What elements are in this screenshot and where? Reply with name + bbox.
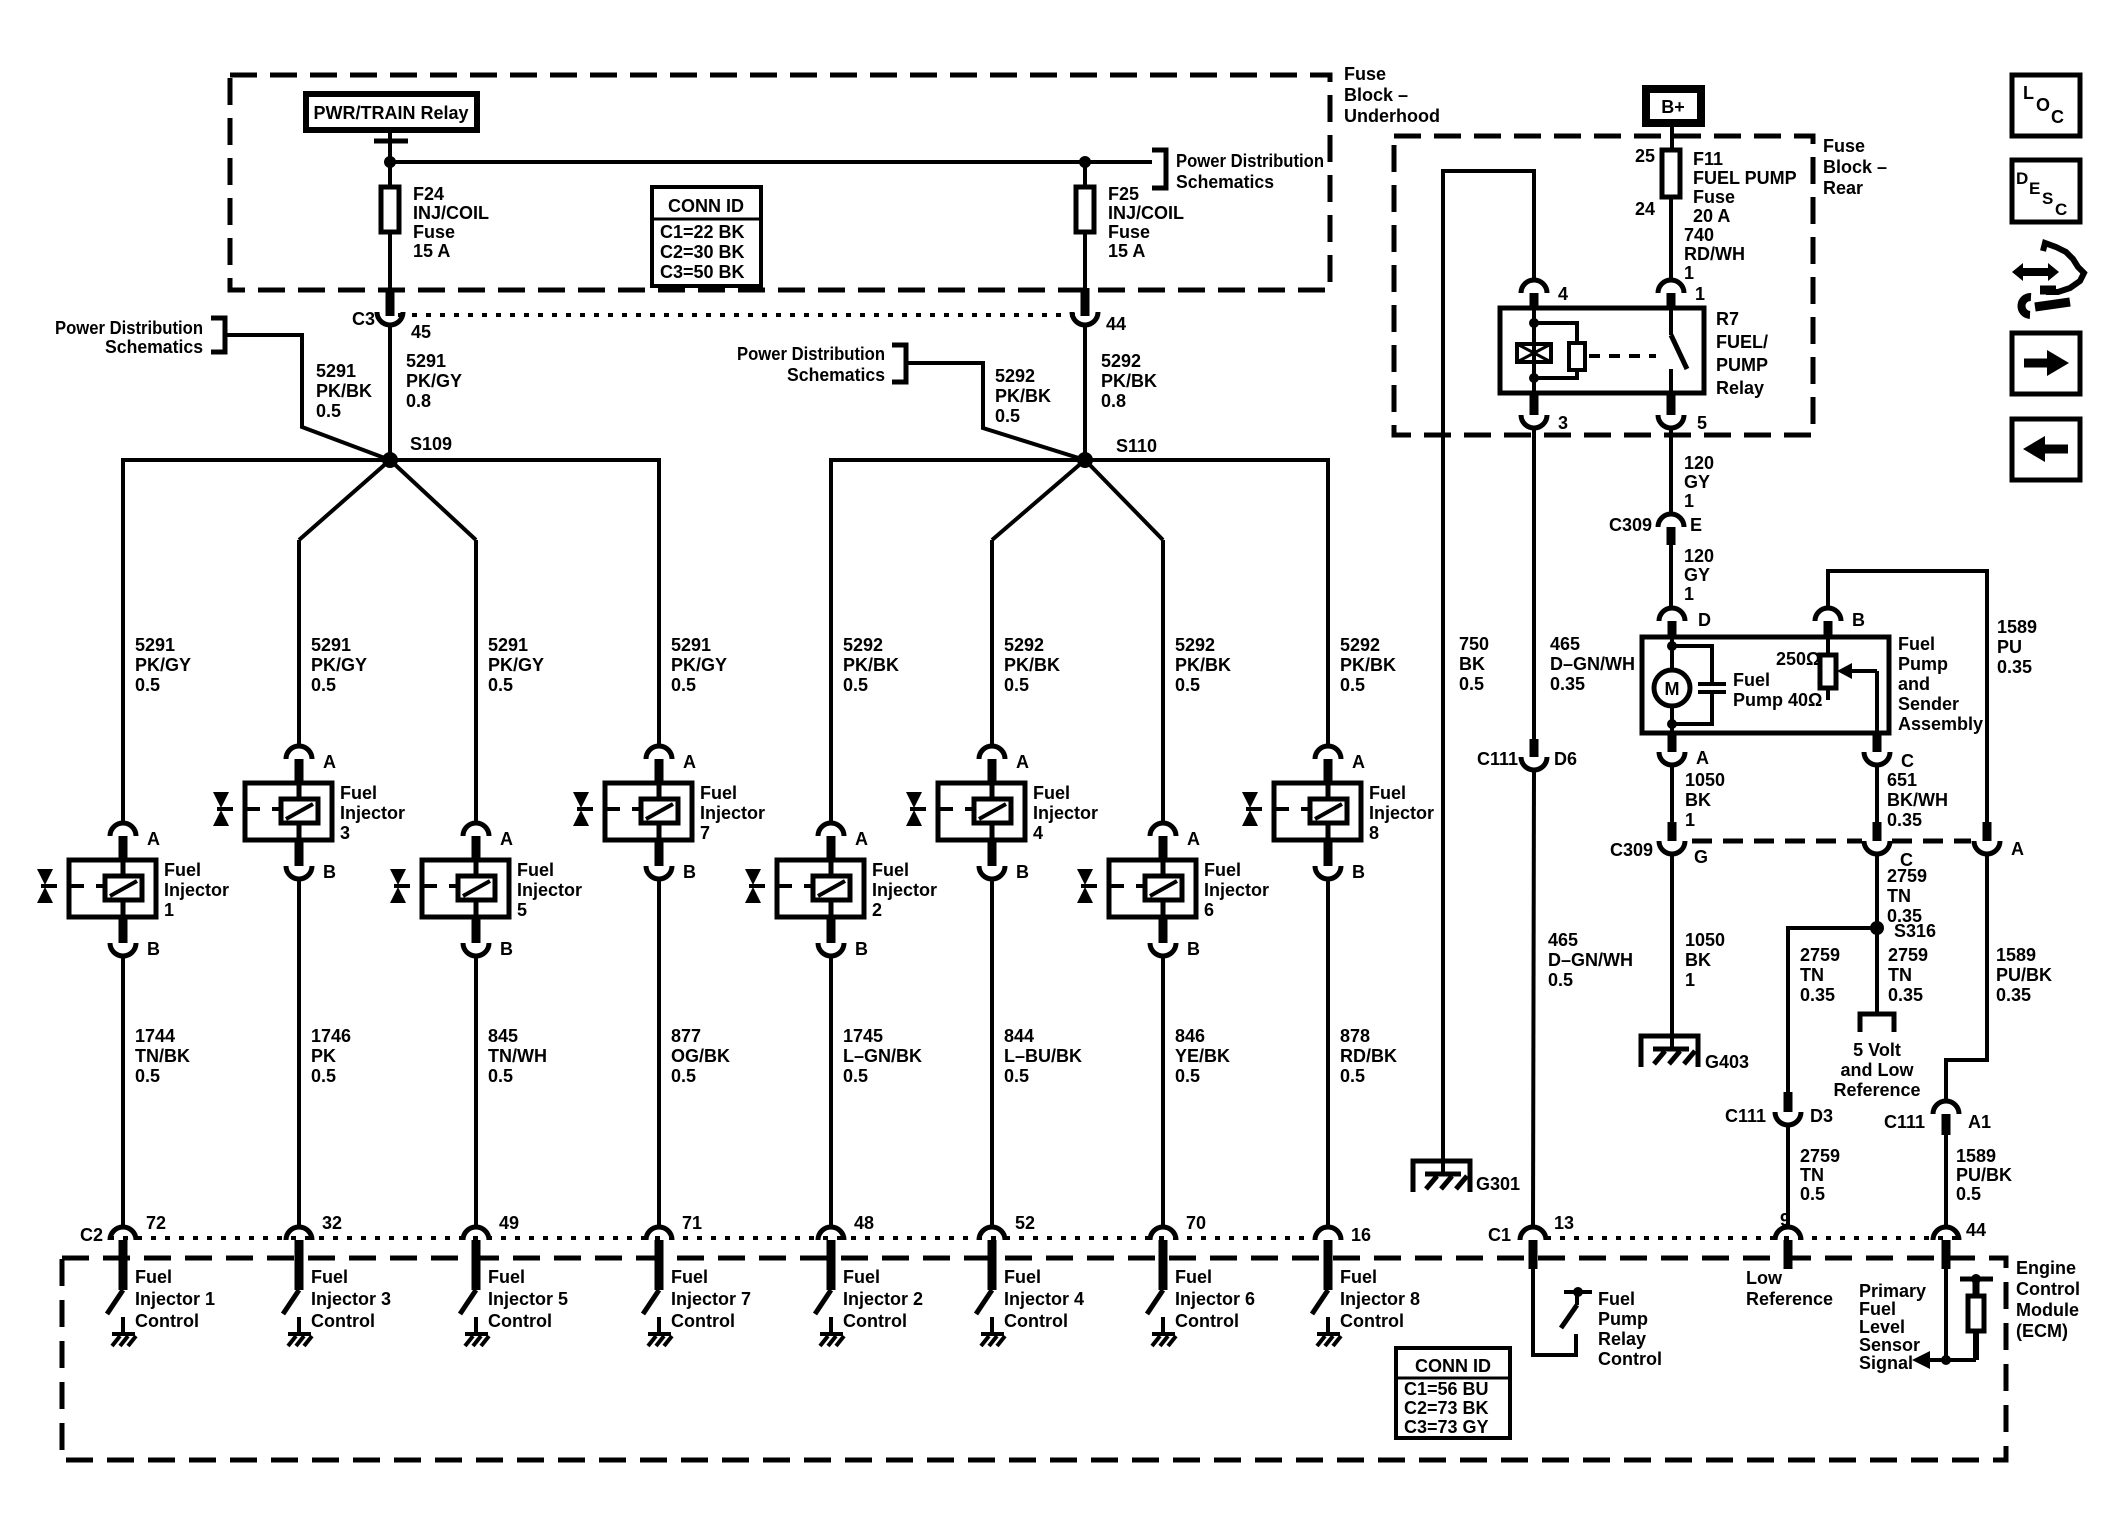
svg-text:Injector: Injector (1204, 880, 1269, 900)
svg-text:CONN ID: CONN ID (668, 196, 744, 216)
connector C111 pin A1 (1884, 1101, 1991, 1135)
label 250 ohm (1776, 649, 1820, 669)
svg-text:D: D (1698, 610, 1711, 630)
svg-text:Schematics: Schematics (1176, 172, 1274, 192)
svg-text:D–GN/WH: D–GN/WH (1550, 654, 1635, 674)
wire relay pin 4 to 750 BK (1443, 171, 1534, 1174)
svg-text:Fuel: Fuel (1004, 1267, 1041, 1287)
svg-text:PK/BK: PK/BK (316, 381, 372, 401)
svg-text:RD/WH: RD/WH (1684, 244, 1745, 264)
wire 1589 PU/BK 0.35 to C111 A1 (1946, 854, 2052, 1101)
node junction at F25 feed (1079, 156, 1091, 168)
svg-text:5: 5 (1697, 413, 1707, 433)
ECM fuel injector 7 control driver (643, 1267, 751, 1346)
svg-text:BK: BK (1685, 790, 1711, 810)
connector C2 dotted line (109, 1236, 1961, 1240)
connector C3 pin 44 (1072, 312, 1126, 334)
fuel injector 5 (390, 823, 582, 959)
svg-text:E: E (1690, 515, 1702, 535)
svg-text:465: 465 (1548, 930, 1578, 950)
ECM connector C2 pin 72 (110, 1213, 166, 1290)
svg-text:2759: 2759 (1800, 945, 1840, 965)
svg-text:Fuse: Fuse (413, 222, 455, 242)
svg-text:C3: C3 (352, 309, 375, 329)
svg-text:CONN ID: CONN ID (1415, 1356, 1491, 1376)
icon wiring repair wrench (2012, 243, 2084, 315)
svg-text:5292: 5292 (1340, 635, 1380, 655)
svg-text:5291: 5291 (671, 635, 711, 655)
svg-text:S: S (2042, 189, 2053, 208)
wire label 5291 PK/GY 0.5 at x=659 (671, 635, 727, 695)
svg-text:A: A (683, 752, 696, 772)
svg-text:Injector: Injector (1033, 803, 1098, 823)
ground G301 (1413, 1161, 1520, 1194)
svg-text:1: 1 (1684, 263, 1694, 283)
svg-text:0.5: 0.5 (1548, 970, 1573, 990)
svg-text:465: 465 (1550, 634, 1580, 654)
wire 651 BK/WH 0.35 to C309 C (1877, 765, 1948, 830)
wire label 750 BK 0.5 (1459, 634, 1489, 694)
svg-text:5292: 5292 (843, 635, 883, 655)
svg-text:A: A (1187, 829, 1200, 849)
svg-text:PK/GY: PK/GY (311, 655, 367, 675)
svg-text:PK/BK: PK/BK (1175, 655, 1231, 675)
svg-text:B: B (683, 862, 696, 882)
ECM connector C2 pin 32 (286, 1213, 342, 1290)
wire label 844 L–BU/BK 0.5 (1004, 1026, 1082, 1086)
fuel level sender wiper arrow (1837, 663, 1877, 733)
svg-text:0.35: 0.35 (1996, 985, 2031, 1005)
svg-text:5291: 5291 (406, 351, 446, 371)
connector C309 pin C (1864, 822, 1913, 870)
svg-text:878: 878 (1340, 1026, 1370, 1046)
svg-text:Control: Control (843, 1311, 907, 1331)
fuel injector 3 (213, 746, 405, 882)
svg-text:R7: R7 (1716, 309, 1739, 329)
svg-text:Level: Level (1859, 1317, 1905, 1337)
ECM connector C1 pin 9 (1775, 1210, 1801, 1269)
svg-text:Fuel: Fuel (1733, 670, 1770, 690)
relay R7 FUEL/PUMP box (1500, 308, 1704, 393)
svg-text:B: B (1352, 862, 1365, 882)
svg-text:Injector: Injector (872, 880, 937, 900)
svg-text:BK: BK (1459, 654, 1485, 674)
splice S109 (382, 434, 452, 468)
wire label 5292 PK/BK 0.5 at x=992 (1004, 635, 1060, 695)
svg-text:Module: Module (2016, 1300, 2079, 1320)
svg-text:BK: BK (1685, 950, 1711, 970)
svg-text:TN/WH: TN/WH (488, 1046, 547, 1066)
ECM fuel level sense resistor (1960, 1274, 1993, 1360)
wire label 5291 PK/GY 0.5 at x=123 (135, 635, 191, 695)
svg-text:Injector 4: Injector 4 (1004, 1289, 1084, 1309)
svg-text:C111: C111 (1477, 749, 1518, 769)
fuse F25 INJ/COIL 15 A (1076, 162, 1184, 261)
wire label 877 OG/BK 0.5 (671, 1026, 730, 1086)
svg-text:5292: 5292 (1175, 635, 1215, 655)
svg-text:44: 44 (1966, 1220, 1986, 1240)
svg-text:Control: Control (1340, 1311, 1404, 1331)
svg-text:RD/BK: RD/BK (1340, 1046, 1397, 1066)
svg-text:Fuel: Fuel (843, 1267, 880, 1287)
svg-text:3: 3 (1558, 413, 1568, 433)
svg-text:G403: G403 (1705, 1052, 1749, 1072)
svg-text:B+: B+ (1661, 97, 1685, 117)
svg-text:Fuel: Fuel (488, 1267, 525, 1287)
wire feed bus to F25 and Power Distribution (390, 160, 1152, 164)
fuel injector 4 (906, 746, 1098, 882)
svg-text:C: C (1901, 751, 1914, 771)
svg-text:0.5: 0.5 (843, 1066, 868, 1086)
svg-text:A: A (1016, 752, 1029, 772)
svg-text:16: 16 (1351, 1225, 1371, 1245)
svg-text:0.5: 0.5 (316, 401, 341, 421)
svg-text:2759: 2759 (1888, 945, 1928, 965)
svg-text:and Low: and Low (1841, 1060, 1915, 1080)
svg-text:7: 7 (700, 823, 710, 843)
svg-text:Sensor: Sensor (1859, 1335, 1920, 1355)
svg-text:0.5: 0.5 (671, 1066, 696, 1086)
relay R7 pin 1 (1658, 280, 1705, 310)
svg-text:9: 9 (1780, 1210, 1790, 1230)
CONN ID table top (652, 187, 761, 286)
relay R7 actuation dashed link (1589, 354, 1656, 358)
fuel pump and sender assembly box (1642, 637, 1889, 733)
svg-text:M: M (1665, 679, 1680, 699)
svg-text:1050: 1050 (1685, 770, 1725, 790)
svg-text:5291: 5291 (135, 635, 175, 655)
svg-text:C309: C309 (1609, 515, 1652, 535)
svg-text:Injector 5: Injector 5 (488, 1289, 568, 1309)
svg-text:PU/BK: PU/BK (1956, 1165, 2012, 1185)
svg-text:Control: Control (311, 1311, 375, 1331)
svg-text:0.5: 0.5 (135, 675, 160, 695)
ECM fuel injector 8 control driver (1312, 1267, 1420, 1346)
wire S109 branch bus (123, 460, 659, 823)
svg-text:Fuel: Fuel (135, 1267, 172, 1287)
svg-text:5292: 5292 (995, 366, 1035, 386)
wire fuel injector 3 to ECM (297, 879, 301, 1227)
svg-text:Fuse: Fuse (1344, 64, 1386, 84)
svg-text:PK/GY: PK/GY (671, 655, 727, 675)
svg-text:0.5: 0.5 (1340, 1066, 1365, 1086)
terminal 5 Volt and Low Reference (1833, 1014, 1920, 1100)
svg-text:Power Distribution: Power Distribution (737, 344, 885, 364)
wire S110 branch bus (831, 460, 1328, 823)
svg-text:FUEL/: FUEL/ (1716, 332, 1768, 352)
svg-text:B: B (1187, 939, 1200, 959)
svg-text:120: 120 (1684, 453, 1714, 473)
svg-text:B: B (147, 939, 160, 959)
svg-text:PK/GY: PK/GY (135, 655, 191, 675)
fuel injector 2 (745, 823, 937, 959)
svg-text:1746: 1746 (311, 1026, 351, 1046)
svg-text:740: 740 (1684, 225, 1714, 245)
svg-text:Fuel: Fuel (1204, 860, 1241, 880)
svg-text:L–GN/BK: L–GN/BK (843, 1046, 922, 1066)
relay R7 coil suppression resistor (1534, 323, 1585, 378)
svg-text:Injector 3: Injector 3 (311, 1289, 391, 1309)
svg-text:2759: 2759 (1800, 1146, 1840, 1166)
svg-text:45: 45 (411, 322, 431, 342)
fuel injector 8 (1242, 746, 1434, 882)
svg-text:0.5: 0.5 (1004, 1066, 1029, 1086)
svg-text:Block –: Block – (1344, 85, 1408, 105)
svg-text:5292: 5292 (1101, 351, 1141, 371)
ECM connector C2 pin 16 (1315, 1225, 1371, 1290)
svg-text:Fuel: Fuel (517, 860, 554, 880)
svg-text:Fuel: Fuel (1340, 1267, 1377, 1287)
svg-text:F24: F24 (413, 184, 444, 204)
svg-text:Sender: Sender (1898, 694, 1959, 714)
svg-text:1: 1 (1684, 584, 1694, 604)
svg-text:Fuel: Fuel (671, 1267, 708, 1287)
connector C2 label (80, 1225, 103, 1245)
connector C111 pin D6 (1477, 739, 1577, 770)
svg-text:G: G (1694, 847, 1708, 867)
svg-text:O: O (2036, 95, 2050, 115)
svg-text:651: 651 (1887, 770, 1917, 790)
svg-text:1050: 1050 (1685, 930, 1725, 950)
wire F24 to connector C3 pin 45 (388, 232, 392, 316)
wire 120 GY 1 relay pin 5 to C309 E (1671, 428, 1714, 514)
relay R7 pin 3 (1521, 393, 1568, 433)
svg-text:Fuel: Fuel (164, 860, 201, 880)
svg-text:C309: C309 (1610, 840, 1653, 860)
icon forward arrow (2012, 333, 2080, 394)
svg-text:B: B (855, 939, 868, 959)
svg-text:44: 44 (1106, 314, 1126, 334)
svg-text:PK/GY: PK/GY (488, 655, 544, 675)
fuse F11 FUEL PUMP 20 A (1635, 146, 1797, 226)
svg-text:Control: Control (1175, 1311, 1239, 1331)
svg-text:Schematics: Schematics (787, 365, 885, 385)
wire 1589 PU 0.35 sender B to C309 A (1828, 571, 2037, 822)
svg-text:0.5: 0.5 (671, 675, 696, 695)
svg-text:Fuel: Fuel (1898, 634, 1935, 654)
wire 2759 TN 0.35 S316 to C111 D3 (1788, 928, 1877, 1092)
svg-text:844: 844 (1004, 1026, 1034, 1046)
svg-text:Block –: Block – (1823, 157, 1887, 177)
svg-text:C1=22 BK: C1=22 BK (660, 222, 745, 242)
svg-text:D: D (2016, 169, 2028, 188)
svg-text:845: 845 (488, 1026, 518, 1046)
wire ECM pin 44 to sensor node (1930, 1269, 1976, 1365)
ECM fuel injector 1 control driver (107, 1267, 215, 1346)
fuse F24 INJ/COIL 15 A (381, 184, 489, 261)
wire 5291 PK/GY 0.8 to S109 (390, 325, 462, 460)
fuel pump motor M (1654, 637, 1690, 733)
svg-text:Injector: Injector (700, 803, 765, 823)
svg-text:BK/WH: BK/WH (1887, 790, 1948, 810)
relay R7 switch (1671, 310, 1687, 393)
svg-text:0.5: 0.5 (488, 675, 513, 695)
svg-text:0.35: 0.35 (1888, 985, 1923, 1005)
svg-text:4: 4 (1558, 284, 1568, 304)
ECM fuel injector 5 control driver (460, 1267, 568, 1346)
svg-text:Fuel: Fuel (1859, 1299, 1896, 1319)
svg-text:Control: Control (488, 1311, 552, 1331)
wire 120 GY 1 C309 E to fuel pump D (1671, 545, 1714, 608)
svg-text:70: 70 (1186, 1213, 1206, 1233)
relay R7 pin 5 (1658, 393, 1707, 433)
svg-text:8: 8 (1369, 823, 1379, 843)
fuel pump capacitor (1672, 646, 1726, 724)
svg-text:Reference: Reference (1746, 1289, 1833, 1309)
svg-text:PK/BK: PK/BK (995, 386, 1051, 406)
wire label 1746 PK 0.5 (311, 1026, 351, 1086)
svg-text:0.5: 0.5 (1800, 1184, 1825, 1204)
wire fuel injector 8 to ECM (1326, 879, 1330, 1227)
wire 5292 PK/BK 0.8 to S110 (1085, 325, 1157, 460)
icon DESC (2012, 160, 2080, 222)
svg-text:32: 32 (322, 1213, 342, 1233)
svg-text:PU/BK: PU/BK (1996, 965, 2052, 985)
svg-text:Fuel: Fuel (1033, 783, 1070, 803)
svg-text:25: 25 (1635, 146, 1655, 166)
svg-text:Assembly: Assembly (1898, 714, 1983, 734)
svg-text:C: C (2051, 107, 2064, 127)
svg-text:0.8: 0.8 (406, 391, 431, 411)
svg-text:Rear: Rear (1823, 178, 1863, 198)
splice S316 (1870, 921, 1936, 941)
connector C3 dotted line (398, 313, 1076, 317)
svg-text:C2=73 BK: C2=73 BK (1404, 1398, 1489, 1418)
svg-text:5292: 5292 (1004, 635, 1044, 655)
svg-text:Low: Low (1746, 1268, 1783, 1288)
svg-text:Fuel: Fuel (1175, 1267, 1212, 1287)
ECM connector C2 pin 52 (979, 1213, 1035, 1290)
ECM fuel pump relay control driver (1533, 1269, 1662, 1369)
svg-text:S110: S110 (1116, 436, 1157, 456)
svg-text:Injector 2: Injector 2 (843, 1289, 923, 1309)
svg-text:F25: F25 (1108, 184, 1139, 204)
svg-text:5291: 5291 (316, 361, 356, 381)
battery feed B+ (1646, 89, 1701, 150)
label Fuel Pump 40 ohm (1733, 670, 1822, 710)
ECM connector C2 pin 48 (818, 1213, 874, 1290)
wire label 1744 TN/BK 0.5 (135, 1026, 190, 1086)
svg-text:C: C (2055, 200, 2067, 219)
fuel injector 6 (1077, 823, 1269, 959)
fuel injector 1 (37, 823, 229, 959)
svg-text:1744: 1744 (135, 1026, 175, 1046)
fuel injector 7 (573, 746, 765, 882)
svg-text:52: 52 (1015, 1213, 1035, 1233)
svg-text:846: 846 (1175, 1026, 1205, 1046)
Power Distribution Schematics reference middle (737, 344, 906, 385)
svg-text:250Ω: 250Ω (1776, 649, 1820, 669)
relay R7 coil (1517, 308, 1551, 393)
svg-text:Power Distribution: Power Distribution (1176, 151, 1324, 171)
wire F25 to connector C3 pin 44 (1083, 232, 1087, 316)
svg-text:0.5: 0.5 (1004, 675, 1029, 695)
svg-text:5 Volt: 5 Volt (1853, 1040, 1901, 1060)
wire 2759 TN 0.5 to ECM pin 9 (1788, 1125, 1840, 1227)
ground G403 (1641, 1036, 1749, 1072)
svg-text:A: A (1352, 752, 1365, 772)
connector C309 dotted line (1692, 839, 1971, 844)
svg-text:F11: F11 (1693, 149, 1723, 169)
svg-text:E: E (2029, 179, 2040, 198)
svg-text:B: B (323, 862, 336, 882)
svg-text:Pump: Pump (1898, 654, 1948, 674)
svg-text:0.35: 0.35 (1550, 674, 1585, 694)
svg-text:0.5: 0.5 (488, 1066, 513, 1086)
svg-text:Power Distribution: Power Distribution (55, 318, 203, 338)
svg-text:0.8: 0.8 (1101, 391, 1126, 411)
svg-text:Control: Control (1004, 1311, 1068, 1331)
svg-text:15 A: 15 A (413, 241, 450, 261)
svg-text:Fuel: Fuel (872, 860, 909, 880)
wire 740 RD/WH 1 (1671, 197, 1745, 283)
svg-text:B: B (500, 939, 513, 959)
svg-text:C2=30 BK: C2=30 BK (660, 242, 745, 262)
svg-text:0.35: 0.35 (1800, 985, 1835, 1005)
label Engine Control Module (ECM) (2016, 1258, 2080, 1341)
svg-text:PK/BK: PK/BK (843, 655, 899, 675)
svg-text:Schematics: Schematics (105, 337, 203, 357)
Power Distribution Schematics reference right (1152, 150, 1324, 192)
label R7 FUEL/PUMP Relay (1716, 309, 1768, 398)
svg-text:1: 1 (1684, 491, 1694, 511)
svg-text:C1=56 BU: C1=56 BU (1404, 1379, 1489, 1399)
svg-text:PK/GY: PK/GY (406, 371, 462, 391)
wire label 878 RD/BK 0.5 (1340, 1026, 1397, 1086)
svg-text:0.5: 0.5 (311, 1066, 336, 1086)
wire 1589 PU/BK 0.5 to ECM pin 44 (1946, 1135, 2012, 1227)
svg-text:INJ/COIL: INJ/COIL (1108, 203, 1184, 223)
svg-text:15 A: 15 A (1108, 241, 1145, 261)
wire 465 D-GN/WH 0.5 to ECM pin 13 (1533, 770, 1633, 1227)
svg-text:Pump 40Ω: Pump 40Ω (1733, 690, 1822, 710)
svg-text:13: 13 (1554, 1213, 1574, 1233)
svg-text:C111: C111 (1725, 1106, 1766, 1126)
svg-text:G301: G301 (1476, 1174, 1520, 1194)
ECM connector C2 pin 70 (1150, 1213, 1206, 1290)
svg-text:Engine: Engine (2016, 1258, 2076, 1278)
wire PWR/TRAIN relay pin to F24 (374, 130, 408, 187)
svg-text:C2: C2 (80, 1225, 103, 1245)
wire 1050 BK 1 to C309 G (1672, 765, 1725, 830)
wire 2759 TN 0.35 S316 to 5 volt reference (1877, 934, 1928, 1014)
wire label 5291 PK/GY 0.5 at x=299 (311, 635, 367, 695)
fuse block - underhood dashed box (230, 75, 1330, 290)
svg-text:TN: TN (1888, 965, 1912, 985)
svg-text:Relay: Relay (1598, 1329, 1646, 1349)
svg-text:5291: 5291 (311, 635, 351, 655)
svg-text:TN: TN (1800, 965, 1824, 985)
connector C309 pin A (1974, 822, 2024, 859)
ECM connector C2 pin 71 (646, 1213, 702, 1290)
svg-text:49: 49 (499, 1213, 519, 1233)
connector C3 label (352, 309, 375, 329)
wire label 846 YE/BK 0.5 (1175, 1026, 1230, 1086)
svg-text:0.5: 0.5 (1175, 1066, 1200, 1086)
svg-text:PUMP: PUMP (1716, 355, 1768, 375)
svg-text:D3: D3 (1810, 1106, 1833, 1126)
wire fuel injector 7 to ECM (657, 879, 661, 1227)
svg-text:D6: D6 (1554, 749, 1577, 769)
svg-text:Fuse: Fuse (1108, 222, 1150, 242)
ECM connector C1 pin 13 (1488, 1213, 1574, 1269)
ECM fuel injector 3 control driver (283, 1267, 391, 1346)
svg-text:FUEL PUMP: FUEL PUMP (1693, 168, 1797, 188)
svg-text:Pump: Pump (1598, 1309, 1648, 1329)
svg-text:B: B (1016, 862, 1029, 882)
svg-text:1589: 1589 (1956, 1146, 1996, 1166)
svg-text:0.5: 0.5 (1175, 675, 1200, 695)
